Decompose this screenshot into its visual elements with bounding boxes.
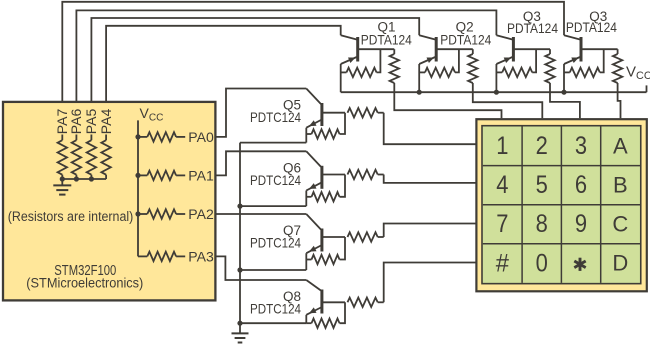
ground symbol (bottom) [232, 332, 249, 334]
wire keypad column 1 [394, 83, 501, 118]
svg-text:1: 1 [496, 132, 508, 160]
svg-text:B: B [613, 172, 628, 197]
svg-text:PDTC124: PDTC124 [250, 301, 301, 317]
svg-text:PDTC124: PDTC124 [250, 172, 301, 188]
resistor Q3 input (internal, vertical) [549, 49, 551, 54]
svg-text:5: 5 [536, 171, 548, 199]
wire keypad column 3 [550, 83, 580, 118]
transistor Q8 PDTC124 (NPN) - collector lead [306, 280, 321, 291]
transistor Q5 PDTC124 (NPN) - collector lead [306, 89, 321, 105]
svg-text:PDTC124: PDTC124 [250, 109, 301, 125]
transistor Q6 base line [322, 174, 345, 176]
keypad gridlines [521, 127, 523, 283]
transistor Q2 PDTA124 (PNP) - collector lead [419, 35, 435, 39]
resistor Q5 input (internal) [348, 108, 378, 117]
resistor Q3 base-emitter (internal) [564, 71, 570, 73]
resistor internal pull-up PA2 [138, 213, 147, 215]
svg-text:7: 7 [496, 210, 508, 238]
VCC stub [646, 85, 648, 92]
resistor Q8 base-emitter (internal) [306, 322, 311, 324]
wire PA2 to Q7 [215, 213, 306, 215]
svg-text:D: D [612, 251, 628, 276]
keypad key grid (green) [482, 126, 641, 284]
wire PA5 feed to Q2 input [91, 18, 419, 101]
wire PA7 feed to Q3 (4th) input [62, 2, 564, 101]
junction dots on VCC rail [135, 134, 140, 139]
transistor Q6 PDTC124 (NPN) - collector lead [306, 151, 321, 167]
transistor Q2 emitter lead with arrow [419, 57, 435, 64]
resistor internal pull-up PA1 [138, 174, 147, 176]
wire keypad column 2 [473, 83, 543, 118]
transistor Q3 PDTA124 (PNP) - collector lead [564, 35, 580, 39]
wire keypad row 4 [384, 263, 476, 303]
transistor Q2 base line [436, 48, 473, 50]
transistor Q6 emitter lead with arrow [306, 183, 321, 191]
junction emitter/VCC rail [561, 90, 566, 95]
svg-text:8: 8 [536, 210, 548, 238]
resistor Q8 input (internal) [348, 298, 378, 307]
transistor Q3 base line [581, 48, 618, 50]
wire PA3 to Q8 [215, 256, 306, 280]
transistor Q8 base bar [320, 290, 323, 314]
resistor internal pull-up PA0 [138, 136, 147, 138]
svg-text:A: A [613, 133, 628, 158]
svg-text:PA2: PA2 [188, 206, 214, 222]
wire keypad row 1 [384, 113, 476, 145]
svg-text:PA0: PA0 [188, 129, 214, 145]
svg-text:4: 4 [496, 171, 508, 199]
wire Q5 emitter return to ground rail [240, 142, 306, 144]
resistor internal pull-up PA6 [75, 135, 77, 141]
wire Q7 emitter down [305, 253, 307, 270]
wire Q3 emitter to VCC rail [495, 64, 497, 92]
wire Q2 emitter to VCC rail [418, 64, 420, 92]
wire Q6 emitter return to ground rail [240, 205, 306, 207]
wire Q8 emitter down [305, 315, 307, 323]
svg-text:VCC: VCC [626, 64, 650, 83]
wire Q3 emitter to VCC rail [563, 64, 565, 92]
resistor Q6 base-emitter (internal) [306, 196, 311, 198]
resistor Q1 base-emitter (internal) [341, 71, 347, 73]
svg-text:PDTA124: PDTA124 [507, 20, 558, 36]
svg-text:(STMicroelectronics): (STMicroelectronics) [26, 275, 143, 290]
transistor Q7 base bar [320, 229, 323, 252]
transistor Q3 PDTA124 (PNP) - collector lead [496, 35, 512, 39]
resistor Q5 base-emitter (internal) [306, 133, 311, 135]
ground (inside MCU) [61, 179, 63, 185]
transistor Q8 emitter lead with arrow [306, 308, 321, 315]
resistor Q7 input (internal) [348, 232, 378, 241]
resistor internal pull-up PA7 [61, 135, 63, 141]
wire Q6 emitter down [305, 191, 307, 207]
junction on ground rail [237, 204, 242, 209]
svg-text:PDTA124: PDTA124 [361, 31, 412, 47]
wire PA6 feed to Q3 (3rd) input [76, 10, 496, 101]
resistor Q3 input (internal, vertical) [617, 49, 619, 54]
svg-text:0: 0 [536, 249, 548, 277]
resistor internal pull-up PA3 [138, 255, 147, 257]
transistor Q5 emitter lead with arrow [306, 120, 321, 128]
svg-text:PDTC124: PDTC124 [250, 235, 301, 251]
wire Q7 emitter return to ground rail [240, 269, 306, 271]
resistor Q1 input (internal, vertical) [393, 49, 395, 54]
svg-text:6: 6 [575, 171, 587, 199]
transistor Q3 base bar [580, 37, 583, 62]
transistor Q7 PDTC124 (NPN) - collector lead [306, 214, 321, 230]
svg-text:PDTA124: PDTA124 [566, 19, 617, 35]
transistor Q3 base line [513, 48, 550, 50]
svg-text:PA4: PA4 [98, 109, 114, 135]
keypad 4x4 (outer frame) [476, 119, 646, 291]
wire Q8 emitter return to ground rail [240, 322, 306, 324]
svg-text:PA5: PA5 [83, 109, 99, 135]
VCC vertical rail (inside MCU) [137, 120, 139, 256]
bus joining PA7..PA4 resistors [62, 178, 106, 180]
transistor Q5 base line [322, 112, 345, 114]
transistor Q3 emitter lead with arrow [496, 57, 512, 64]
svg-text:PA3: PA3 [188, 248, 214, 264]
wire Q5 emitter down [305, 128, 307, 143]
transistor Q2 base bar [435, 37, 438, 62]
transistor Q3 base bar [512, 37, 515, 62]
resistor Q3 base-emitter (internal) [496, 71, 502, 73]
svg-text:PA1: PA1 [188, 167, 214, 183]
transistor Q1 base bar [356, 37, 359, 62]
junction emitter/VCC rail [494, 90, 499, 95]
junction dots on bus [60, 176, 65, 181]
transistor Q6 base bar [320, 166, 323, 189]
transistor Q1 emitter lead with arrow [341, 57, 357, 64]
resistor Q7 base-emitter (internal) [306, 259, 311, 261]
transistor Q7 base line [322, 236, 345, 238]
key * [579, 258, 582, 265]
svg-text:9: 9 [575, 210, 587, 238]
transistor Q8 base line [322, 301, 345, 303]
junction on ground rail [237, 267, 242, 272]
transistor Q5 base bar [320, 103, 323, 126]
resistor Q2 base-emitter (internal) [419, 71, 425, 73]
transistor Q1 base line [358, 48, 395, 50]
wire keypad row 2 [384, 175, 476, 183]
svg-text:(Resistors are internal): (Resistors are internal) [8, 209, 134, 224]
wire PA0 to Q5 [215, 89, 306, 137]
transistor Q1 PDTA124 (PNP) - collector lead [341, 35, 357, 39]
ground rail vertical [239, 143, 241, 333]
wire keypad column 4 [618, 83, 621, 118]
wire PA1 to Q6 [215, 151, 306, 175]
wire keypad row 3 [384, 224, 476, 238]
svg-text:3: 3 [575, 132, 587, 160]
svg-text:PDTA124: PDTA124 [440, 31, 491, 47]
junction on ground rail [237, 321, 242, 326]
resistor Q2 input (internal, vertical) [472, 49, 474, 54]
resistor internal pull-up PA5 [90, 135, 92, 141]
resistor Q6 input (internal) [348, 170, 378, 179]
svg-text:2: 2 [536, 132, 548, 160]
resistor internal pull-up PA4 [105, 135, 107, 141]
svg-text:PA6: PA6 [68, 109, 84, 135]
transistor Q3 emitter lead with arrow [564, 57, 580, 64]
MCU block STM32F100 (yellow box) [3, 102, 215, 301]
svg-text:#: # [496, 249, 509, 277]
svg-text:C: C [612, 212, 628, 237]
wire Q1 emitter to VCC rail [340, 64, 342, 92]
wire PA4 feed to Q1 input [106, 26, 341, 101]
transistor Q7 emitter lead with arrow [306, 246, 321, 254]
junction emitter/VCC rail [417, 90, 422, 95]
VCC emitter rail [341, 91, 647, 93]
